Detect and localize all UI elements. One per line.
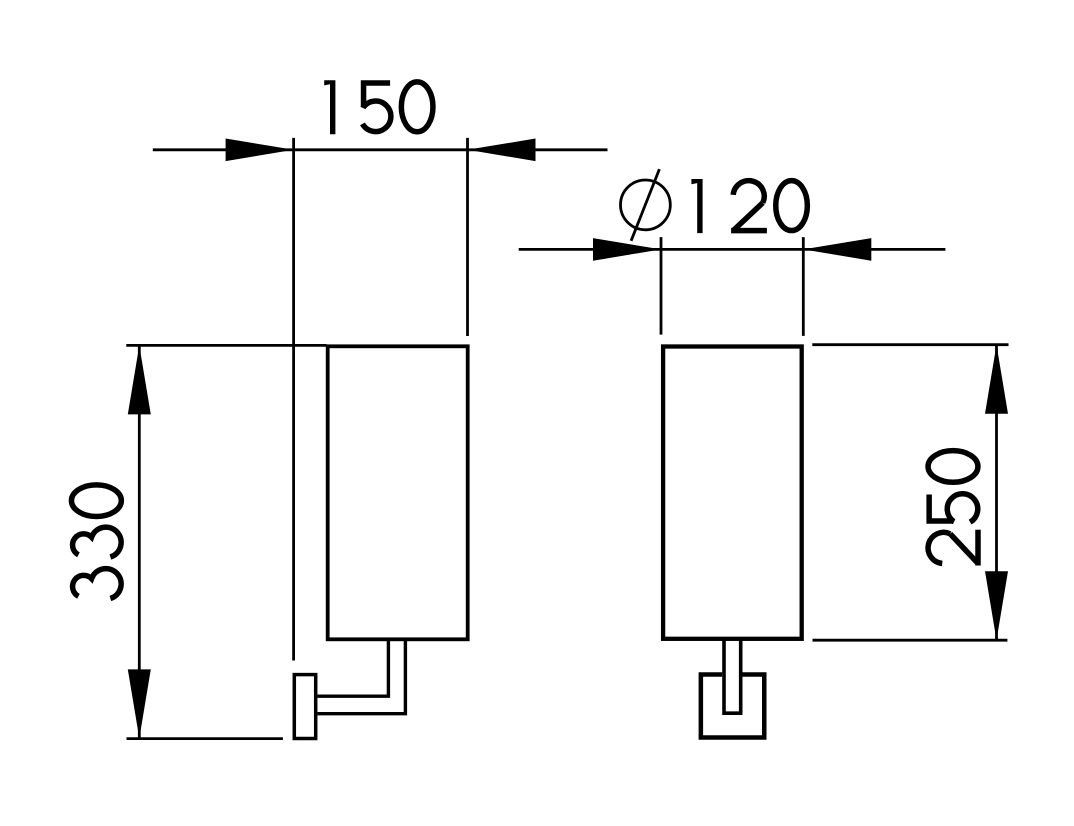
arrowhead 150 left	[226, 139, 294, 162]
arrowhead 330 bottom	[128, 669, 151, 738]
arrowhead 250 bottom	[985, 571, 1008, 640]
wall plate side view	[294, 675, 315, 739]
mounting arm outer contour	[318, 639, 406, 713]
lamp body front view	[663, 347, 802, 639]
arrowhead 150 right	[468, 139, 536, 162]
dimension line 330	[138, 345, 141, 738]
dimension line 120	[519, 248, 946, 251]
extension line 330 top	[126, 344, 326, 347]
arrowhead 120 right	[803, 238, 871, 261]
dimension line 250	[995, 345, 998, 641]
arrowhead 330 top	[128, 345, 151, 414]
lamp body side view	[328, 346, 468, 639]
extension line 120 right	[802, 237, 805, 336]
extension line 250 top	[812, 343, 1008, 346]
dimension line 150	[153, 148, 608, 151]
diameter symbol slash	[631, 169, 659, 241]
label 120	[691, 179, 807, 233]
arrowhead 250 top	[985, 345, 1008, 414]
label 330	[71, 485, 121, 599]
extension line 150 right	[466, 138, 469, 336]
extension line 330 bottom	[127, 737, 283, 740]
arrowhead 120 left	[593, 238, 661, 261]
mounting arm inner contour	[318, 639, 389, 696]
label 250	[928, 451, 981, 566]
diameter symbol circle	[621, 180, 671, 230]
extension line 250 bottom	[813, 639, 1008, 642]
label 150	[324, 80, 433, 134]
extension line 150 left	[292, 138, 295, 661]
wall bracket front view	[701, 674, 764, 737]
extension line 120 left	[660, 237, 663, 335]
stem front view	[724, 639, 741, 713]
